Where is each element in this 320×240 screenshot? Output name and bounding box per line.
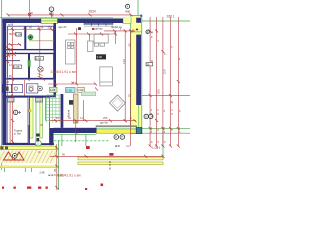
- svg-text:75: 75: [127, 94, 131, 98]
- svg-text:w.06: w.06: [8, 24, 14, 27]
- svg-text:пл: пл: [126, 144, 130, 148]
- svg-text:2834: 2834: [89, 10, 96, 14]
- svg-text:95: 95: [53, 168, 57, 172]
- svg-text:800: 800: [125, 9, 130, 13]
- svg-text:1 14: 1 14: [38, 26, 44, 30]
- svg-text:120: 120: [163, 69, 167, 74]
- svg-text:205: 205: [103, 116, 108, 120]
- svg-text:800: 800: [49, 12, 54, 16]
- svg-text:45: 45: [6, 80, 9, 84]
- svg-text:пифб дο: пифб дο: [111, 25, 122, 29]
- svg-text:1.64: 1.64: [16, 33, 22, 37]
- svg-text:C-02: C-02: [66, 88, 72, 92]
- svg-text:97: 97: [56, 116, 59, 120]
- svg-text:12: 12: [9, 63, 12, 67]
- svg-text:П: П: [121, 135, 123, 139]
- svg-text:90: 90: [30, 11, 33, 15]
- svg-text:305: 305: [156, 89, 160, 94]
- svg-text:45: 45: [9, 74, 12, 78]
- svg-text:р. 5м: р. 5м: [14, 132, 21, 136]
- svg-text:45: 45: [170, 100, 174, 104]
- svg-text:2.48: 2.48: [40, 172, 45, 175]
- svg-text:1-05: 1-05: [50, 88, 56, 92]
- svg-text:15: 15: [131, 29, 135, 33]
- svg-text:75: 75: [76, 131, 80, 135]
- svg-text:C-03: C-03: [78, 88, 84, 92]
- svg-text:04: 04: [150, 115, 154, 119]
- svg-text:266 1: 266 1: [167, 15, 175, 19]
- svg-text:14: 14: [80, 116, 83, 120]
- svg-text:⊞ 8: ⊞ 8: [115, 144, 120, 148]
- svg-text:3135/41.91 о ви: 3135/41.91 о ви: [51, 70, 76, 74]
- svg-text:95: 95: [128, 43, 132, 47]
- svg-text:C-06: C-06: [14, 65, 20, 69]
- svg-text:95: 95: [9, 53, 12, 57]
- svg-text:пдо бл: пдо бл: [58, 25, 67, 29]
- svg-text:90: 90: [29, 26, 32, 30]
- svg-text:205: 205: [48, 26, 53, 30]
- svg-text:Б-08: Б-08: [35, 56, 41, 60]
- svg-text:1.05 t: 1.05 t: [152, 146, 160, 150]
- svg-text:3.05: 3.05: [8, 98, 14, 102]
- svg-text:пдб мо: пдб мо: [94, 28, 103, 31]
- svg-text:96: 96: [62, 153, 65, 157]
- svg-text:0.00: 0.00: [97, 55, 103, 59]
- svg-text:Кухня: Кухня: [66, 109, 70, 117]
- svg-text:120: 120: [122, 59, 126, 64]
- svg-text:асф.б. к.др: асф.б. к.др: [48, 173, 63, 177]
- svg-text:дог бм: дог бм: [100, 122, 108, 125]
- svg-text:3.08: 3.08: [36, 98, 42, 102]
